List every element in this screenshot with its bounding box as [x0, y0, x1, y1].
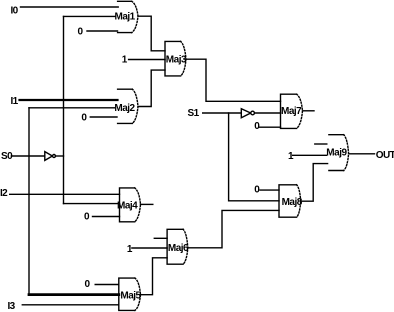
svg-text:Maj9: Maj9 [326, 147, 347, 158]
majority gate Maj1 [115, 1, 139, 32]
wire Maj4 output (dangling) [141, 203, 153, 205]
wire Maj5 output to Maj6 bottom input [141, 258, 168, 295]
svg-text:Maj3: Maj3 [166, 54, 187, 65]
wire 1 to Maj3 middle input [129, 59, 165, 61]
svg-text:I3: I3 [8, 301, 16, 312]
wire Maj3 output to Maj7 top input [186, 59, 281, 101]
wire 0 to Maj4 bottom input [93, 216, 120, 218]
wire 0 to Maj1 bottom input [87, 30, 118, 32]
wire I0 to Maj1 top input [21, 6, 119, 8]
svg-text:Maj6: Maj6 [168, 243, 189, 254]
majority gate Maj3 [165, 41, 187, 76]
majority gate Maj2 [114, 89, 138, 123]
svg-text:Maj1: Maj1 [115, 12, 136, 23]
wire S0 inverter output to riser [56, 155, 64, 157]
svg-text:Maj2: Maj2 [114, 103, 135, 114]
wire 0 to Maj8 top input [260, 189, 279, 191]
majority gate Maj7 [281, 94, 303, 128]
vertical riser S0 (to Maj2 and Maj5) [28, 108, 30, 294]
wire Maj7 output (dangling) [303, 110, 315, 112]
svg-text:Maj7: Maj7 [281, 106, 302, 117]
wire S0 riser to Maj2 middle input [29, 107, 114, 109]
wire S1 inverter output to Maj7 middle input [255, 112, 281, 114]
wire 0 to Maj2 bottom input [90, 116, 117, 118]
svg-text:I2: I2 [0, 188, 8, 199]
wire 1 to Maj9 middle input [293, 154, 327, 156]
wire S1 to inverter input [203, 112, 242, 114]
wire Maj2 output to Maj3 bottom input [138, 70, 165, 106]
majority gate Maj8 [279, 185, 303, 217]
majority gate Maj6 [167, 229, 189, 264]
wire I2 to Maj4 top input [10, 193, 120, 195]
svg-text:S1: S1 [188, 108, 200, 119]
wire S0 to inverter input [11, 155, 44, 157]
wire Maj6 top input stub (dangling) [154, 237, 167, 239]
majority gate Maj5 [119, 278, 142, 310]
svg-text:OUT: OUT [376, 150, 394, 161]
wire 1 to Maj6 middle input [132, 247, 167, 249]
wire inverted S0 to Maj1 middle input [64, 15, 116, 17]
wire Maj8 output to Maj9 bottom input [301, 164, 328, 202]
wire I3 to Maj5 bottom input [22, 304, 119, 306]
majority gate Maj4 [117, 188, 141, 222]
wire inverted S0 riser to Maj4 middle input [64, 203, 120, 205]
wire Maj9 output to OUT [349, 153, 375, 155]
inverter on S1 [241, 109, 254, 118]
wire Maj1 output to Maj3 top input [138, 16, 165, 51]
wire Maj9 top input stub (dangling) [315, 143, 327, 145]
svg-text:I0: I0 [11, 6, 19, 17]
wire S1 riser to Maj8 middle input [229, 113, 279, 201]
svg-text:I1: I1 [11, 96, 19, 107]
wire Maj6 output to Maj8 bottom input [188, 210, 279, 247]
majority gate Maj9 [326, 135, 348, 171]
wire I1 to Maj2 top input (thick) [20, 99, 118, 101]
wire 0 to Maj5 top input [95, 284, 119, 286]
svg-text:Maj4: Maj4 [117, 201, 138, 212]
vertical riser inverted S0 (to Maj1 and Maj4) [63, 16, 65, 203]
svg-text:Maj5: Maj5 [120, 291, 141, 302]
svg-text:Maj8: Maj8 [282, 197, 303, 208]
wire 0 to Maj7 bottom input [259, 126, 281, 128]
wire S0 riser to Maj5 middle input (thick) [29, 293, 119, 296]
inverter on S0 [45, 152, 56, 161]
